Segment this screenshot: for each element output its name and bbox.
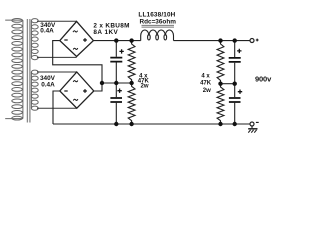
capacitor C3 top wire — [234, 41, 236, 58]
capacitor C1 plus mark — [119, 49, 123, 53]
capacitor C2 top wire — [115, 83, 117, 97]
capacitor C4 plates — [229, 98, 241, 102]
capacitor C2 plates — [110, 98, 122, 102]
wire top rail from BR1 plus to inductor — [93, 40, 140, 42]
junction dot bottom rail at C2 — [114, 122, 118, 126]
capacitor C3 plus mark — [237, 49, 241, 53]
output terminal plus circle — [250, 39, 254, 43]
svg-text:4 x: 4 x — [201, 74, 210, 80]
junction dot middle row at R3-R4 — [218, 82, 222, 86]
bridge BR1 minus mark left — [64, 39, 67, 41]
capacitor C4 bottom wire — [234, 103, 236, 124]
transformer T1 secondary 2 winding turns — [31, 70, 38, 110]
wire middle node row right — [221, 83, 235, 85]
inductor L1 coil inner loops — [148, 35, 167, 40]
capacitor C1 plates — [110, 58, 122, 62]
capacitor C4 plus mark — [238, 90, 242, 94]
capacitor C2 bottom wire — [115, 103, 117, 124]
junction dot bottom rail at R2 — [129, 122, 133, 126]
transformer T1 secondary 1 connector — [30, 21, 32, 58]
transformer T1 primary winding turns — [12, 19, 23, 121]
ground bar — [248, 128, 257, 130]
junction dot middle row at C1-C2 — [114, 81, 118, 85]
svg-text:2w: 2w — [203, 88, 211, 94]
wire BR1 minus link down to BR2 plus — [53, 41, 102, 91]
transformer T1 primary bottom lead — [5, 118, 23, 120]
capacitor C2 plus mark — [117, 89, 121, 93]
bridge BR1 plus mark right — [83, 38, 87, 42]
junction dot middle row at R1-R2 — [129, 81, 133, 85]
capacitor C3 plates — [229, 58, 241, 62]
bridge rectifier BR2 (bottom) body — [60, 72, 94, 108]
wire secondary1 bottom lead to bridge BR1 AC2 — [37, 56, 77, 58]
transformer T1 primary top lead — [5, 19, 23, 21]
junction dot top rail at C1 — [114, 38, 118, 42]
resistor R1 — [128, 41, 135, 83]
svg-text:8A 1KV: 8A 1KV — [93, 29, 118, 36]
resistor R4 — [217, 84, 224, 124]
capacitor C1 top wire — [115, 41, 117, 57]
svg-text:0.4A: 0.4A — [40, 28, 54, 35]
bridge BR2 minus mark left — [64, 90, 67, 92]
svg-text:900v: 900v — [255, 75, 272, 84]
junction dot top rail at R3 — [218, 38, 222, 42]
inductor L1 coil — [141, 30, 174, 41]
bridge BR2 tilde mark bottom — [73, 99, 78, 100]
transformer T1 primary connector wire — [22, 20, 24, 119]
svg-text:Rdc=36ohm: Rdc=36ohm — [140, 19, 177, 26]
wire bottom rail — [53, 123, 250, 125]
bridge BR1 tilde mark top — [73, 31, 78, 32]
capacitor C3 bottom wire — [234, 63, 236, 84]
bridge BR2 tilde mark top — [73, 81, 78, 82]
capacitor C1 bottom wire — [115, 62, 117, 83]
junction dot bottom rail at C4 — [233, 122, 237, 126]
ground stub — [251, 126, 253, 128]
wire BR2 minus stub down to bottom rail — [53, 91, 60, 124]
transformer T1 secondary 2 connector — [30, 72, 32, 108]
resistor R3 — [217, 41, 224, 84]
junction dot top rail at R1 — [129, 38, 133, 42]
wire top rail after inductor to output — [174, 40, 251, 42]
transformer T1 core — [27, 19, 30, 123]
output terminal minus circle — [250, 122, 254, 126]
inductor L1 iron core lines — [142, 25, 175, 27]
junction dot bottom rail at R4 — [218, 122, 222, 126]
ground hatch lines — [248, 130, 256, 133]
transformer T1 secondary 1 winding turns — [31, 19, 38, 60]
junction dot top rail at C3 — [233, 38, 237, 42]
label minus at output — [256, 121, 259, 123]
junction dot between bridges tap — [100, 81, 104, 85]
svg-text:0.4A: 0.4A — [41, 81, 55, 88]
wire secondary2 bottom lead to bridge BR2 AC2 — [37, 107, 77, 109]
svg-text:47K: 47K — [200, 81, 212, 87]
svg-text:2w: 2w — [140, 84, 148, 90]
bridge rectifier BR1 (top) body — [60, 21, 94, 56]
wire secondary2 top lead to bridge BR2 AC1 — [37, 71, 77, 73]
wire middle tap to middle node row left — [102, 82, 132, 84]
capacitor C4 top wire — [234, 84, 236, 98]
bridge BR1 tilde mark bottom — [73, 48, 78, 49]
wire secondary1 top lead to bridge BR1 AC1 — [37, 20, 77, 22]
resistor R2 — [128, 83, 135, 124]
bridge BR2 plus mark right — [83, 89, 87, 93]
label plus at output — [256, 39, 259, 42]
junction dot middle row at C3-C4 — [233, 82, 237, 86]
